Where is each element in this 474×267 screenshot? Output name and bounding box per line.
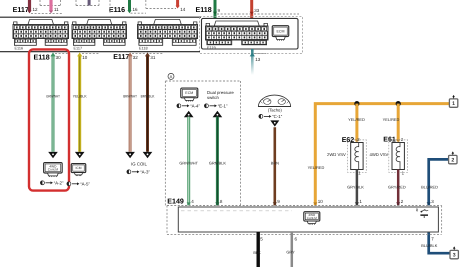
svg-text:E118: E118 — [196, 6, 212, 14]
svg-text:“A-4”: “A-4” — [190, 103, 200, 108]
svg-text:“A-2”: “A-2” — [54, 180, 64, 185]
svg-text:E149: E149 — [167, 198, 184, 206]
svg-text:14: 14 — [180, 7, 186, 12]
4WD switch icon — [416, 209, 428, 218]
top divider line — [0, 16, 201, 18]
circled A marker — [168, 73, 174, 79]
svg-text:BRN/BLK: BRN/BLK — [141, 94, 155, 98]
dashed border around ECM block — [200, 17, 303, 54]
dashed vertical x110 — [109, 0, 111, 13]
svg-text:16: 16 — [133, 7, 139, 12]
wire GRY/BLK — [356, 170, 359, 206]
note A-3 — [127, 169, 151, 174]
connector E116 — [13, 20, 69, 46]
divider line 2 — [0, 51, 200, 53]
junction dot 1 — [354, 101, 359, 106]
wire GRN/WHT middle — [187, 117, 190, 206]
red highlight rounded rect — [29, 49, 69, 190]
faint inner dashes — [181, 210, 292, 212]
svg-text:“C-1”: “C-1” — [272, 114, 283, 119]
4WD control module icon (left) — [44, 163, 63, 178]
ICM icon — [71, 164, 86, 177]
wire YEL/RED to E62 — [355, 104, 358, 142]
wire GRY/RED — [397, 170, 400, 206]
wire pin14 (red) — [176, 0, 179, 7]
svg-text:Cont.M: Cont.M — [48, 168, 59, 172]
svg-text:BRN/WHT: BRN/WHT — [123, 94, 137, 98]
wire YEL/BLK E118-10 — [78, 55, 81, 152]
svg-text:10: 10 — [318, 199, 324, 204]
svg-text:31: 31 — [150, 55, 156, 60]
svg-text:10: 10 — [82, 55, 88, 60]
dashed line E116-14 — [146, 8, 176, 10]
wire GRY — [291, 232, 294, 267]
svg-text:E119: E119 — [207, 46, 216, 50]
4WD Cont.M icon inside box — [304, 212, 320, 225]
svg-text:13: 13 — [255, 57, 261, 62]
svg-text:(Tacho): (Tacho) — [268, 108, 283, 113]
note C-1 — [259, 114, 283, 119]
svg-text:GRN/BLK: GRN/BLK — [209, 160, 226, 165]
svg-text:GRN/WHT: GRN/WHT — [46, 94, 60, 98]
svg-text:11: 11 — [54, 7, 59, 12]
4WD controller box — [178, 207, 438, 232]
wire BRN/WHT E117-32 — [129, 55, 132, 152]
dashed stubs below divider — [55, 52, 163, 54]
svg-text:YEL/RED: YEL/RED — [383, 117, 400, 122]
wire BRN/BLK E117-31 — [146, 55, 149, 152]
wire BRN tacho — [273, 127, 276, 205]
dashed line mid — [131, 12, 147, 14]
connector E118 — [138, 20, 198, 46]
svg-text:33: 33 — [254, 8, 260, 13]
svg-text:GRN/WHT: GRN/WHT — [179, 160, 198, 165]
wire purple stub — [88, 0, 91, 6]
E149 pin numbers top — [191, 199, 434, 204]
note A-4 — [177, 103, 201, 108]
svg-text:“A-5”: “A-5” — [80, 181, 90, 186]
terminal box 1 — [449, 95, 457, 107]
svg-text:2WD VSV: 2WD VSV — [327, 152, 346, 157]
svg-text:E117: E117 — [74, 47, 83, 51]
note A-5 — [67, 181, 91, 186]
svg-text:Cont.M: Cont.M — [307, 216, 317, 220]
note A-2 — [40, 180, 64, 185]
svg-text:Dual pressure: Dual pressure — [207, 90, 234, 95]
svg-text:YEL/RED: YEL/RED — [308, 165, 325, 170]
Dual pressure switch label — [207, 90, 234, 100]
dashed component box remnant 2 — [76, 0, 99, 6]
wire E117 pin11 (pink) — [49, 0, 52, 11]
svg-text:BRN: BRN — [271, 160, 279, 165]
svg-text:2: 2 — [451, 158, 454, 164]
svg-text:BLU/RED: BLU/RED — [421, 184, 438, 189]
svg-text:E116: E116 — [109, 6, 125, 14]
up arrow GRN/WHT — [184, 111, 194, 117]
pin numbers section 2 — [56, 55, 156, 60]
pin numbers top — [33, 7, 260, 13]
wire E118 pin33 (red) — [250, 0, 253, 21]
dashed line E118 top — [217, 13, 299, 15]
svg-text:ICM: ICM — [75, 166, 81, 170]
svg-text:E117: E117 — [113, 53, 129, 61]
wire E117 pin12 (maroon) — [28, 0, 31, 11]
svg-text:E116: E116 — [15, 47, 24, 51]
terminal box 3 — [450, 246, 458, 258]
svg-text:E118: E118 — [139, 47, 148, 51]
orange trunk horizontal — [315, 104, 449, 206]
svg-text:30: 30 — [56, 55, 62, 60]
dashed vertical x145.8 — [145, 0, 147, 9]
svg-text:GRY: GRY — [286, 250, 295, 255]
solenoid valve E62 — [348, 140, 367, 172]
svg-text:BLU/BLK: BLU/BLK — [421, 243, 437, 248]
terminal box 2 — [449, 151, 457, 163]
E149 pin numbers bottom — [260, 236, 434, 241]
dashed line top-left — [31, 12, 62, 14]
ECM block rounded box — [202, 18, 299, 49]
wire BLK — [257, 232, 260, 267]
svg-text:YEL/BLK: YEL/BLK — [73, 94, 87, 98]
svg-text:4WD VSV: 4WD VSV — [370, 152, 389, 157]
tachometer icon — [258, 95, 290, 106]
junction dot 2 — [396, 101, 401, 106]
svg-text:32: 32 — [133, 55, 139, 60]
wire E118 pin9 (green) — [214, 0, 217, 21]
svg-text:YEL/RED: YEL/RED — [348, 117, 365, 122]
down arrow tacho — [270, 120, 279, 126]
wire GRN/BLK middle — [216, 117, 219, 206]
wire BLU/BLK to box3 — [429, 232, 450, 253]
svg-text:BLK: BLK — [253, 250, 261, 255]
svg-text:A: A — [170, 74, 173, 79]
ECM icon top-right — [272, 26, 289, 41]
svg-text:“A-3”: “A-3” — [140, 169, 150, 174]
wire BLU/RED from box2 — [429, 159, 449, 205]
svg-text:GRY/BLK: GRY/BLK — [347, 184, 364, 189]
svg-text:switch: switch — [207, 95, 220, 100]
svg-text:E117: E117 — [13, 6, 29, 14]
svg-text:IG COIL: IG COIL — [131, 161, 147, 166]
wire E116 pin16 (green) — [128, 0, 131, 11]
ECM icon middle — [181, 88, 198, 102]
dashed component box remnant 1 — [40, 0, 61, 6]
svg-text:“E-1”: “E-1” — [218, 103, 228, 108]
up arrow GRN/BLK — [213, 111, 223, 117]
svg-text:E118: E118 — [34, 54, 50, 62]
middle dashed box — [165, 81, 240, 206]
svg-text:GRY/RED: GRY/RED — [388, 184, 406, 189]
svg-text:ECM: ECM — [277, 29, 285, 33]
note E-1 — [204, 103, 228, 108]
svg-text:12: 12 — [33, 7, 39, 12]
solenoid valve E61 — [389, 140, 408, 172]
E149 dashed boundary — [167, 206, 442, 235]
svg-text:ECM: ECM — [185, 91, 193, 95]
wire YEL/RED to E61 — [397, 104, 400, 142]
connector E117 — [72, 20, 127, 46]
connector E119 — [206, 21, 269, 45]
svg-text:3: 3 — [453, 253, 456, 259]
wire end arrows at E149 — [187, 202, 431, 205]
wire GRN/WHT E118-30 — [52, 55, 55, 152]
svg-text:1: 1 — [452, 101, 455, 107]
